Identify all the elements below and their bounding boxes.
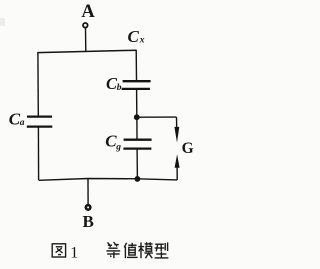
- wire left branch upper: [37, 52, 39, 116]
- wire B drop: [87, 179, 89, 205]
- caption 图: [52, 244, 65, 257]
- svg-text:A: A: [81, 2, 95, 22]
- wire A to top bus: [85, 28, 87, 51]
- caption 型: [155, 242, 169, 258]
- svg-text:g: g: [115, 142, 121, 152]
- wire top bus: [38, 50, 136, 52]
- capacitor Cb: [123, 80, 151, 82]
- svg-text:G: G: [182, 140, 194, 157]
- svg-text:a: a: [20, 118, 25, 128]
- wire bottom bus: [39, 179, 178, 181]
- gap G down arrowhead: [174, 127, 179, 143]
- capacitor Cg: [124, 139, 152, 141]
- wire Cb to node: [136, 90, 138, 117]
- caption 值: [124, 243, 137, 258]
- svg-text:1: 1: [70, 244, 78, 261]
- gap G upper shaft: [176, 117, 178, 128]
- caption 模: [138, 242, 152, 258]
- svg-text:b: b: [117, 83, 122, 93]
- wire Cg to bottom node: [136, 150, 138, 179]
- caption 等: [106, 242, 120, 258]
- gap G lower shaft: [176, 167, 178, 180]
- wire left branch lower: [37, 127, 39, 180]
- svg-text:x: x: [139, 36, 145, 46]
- junction node upper: [134, 114, 140, 120]
- gap G up arrowhead: [175, 154, 180, 168]
- terminal B: [86, 205, 91, 210]
- wire right branch upper: [135, 50, 137, 81]
- svg-text:C: C: [128, 27, 140, 46]
- wire to gap branch top: [137, 116, 177, 118]
- capacitor Ca: [27, 115, 52, 117]
- wire node to Cg: [136, 118, 138, 139]
- scan artifact left edge: [0, 18, 5, 26]
- svg-text:B: B: [83, 212, 94, 231]
- terminal A: [83, 23, 88, 28]
- junction node lower: [135, 176, 141, 182]
